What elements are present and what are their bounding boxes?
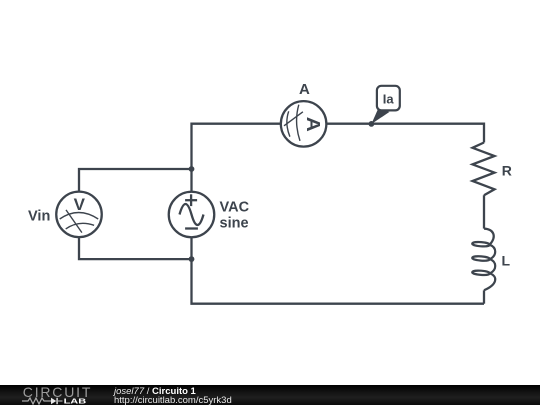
ammeter AM1 [281, 101, 327, 146]
current probe flag pointer [371, 109, 389, 124]
svg-text:sine: sine [220, 216, 249, 232]
logo resistor zigzag [22, 398, 51, 404]
svg-text:VAC: VAC [220, 199, 250, 215]
logo diode [51, 397, 56, 403]
wire left vertical above VAC [190, 169, 192, 192]
svg-text:Ia: Ia [383, 91, 395, 106]
current probe flag box [377, 86, 400, 111]
wire left vertical below VAC [192, 237, 485, 304]
wire top right segment [326, 124, 484, 143]
wire right vertical below L [483, 290, 485, 303]
wire top left segment [192, 124, 281, 169]
VAC source V1 [169, 192, 215, 238]
svg-text:A: A [299, 81, 310, 98]
svg-text:L: L [502, 253, 511, 269]
CircuitLab logo [23, 385, 92, 399]
svg-text:R: R [502, 162, 512, 178]
inductor L [472, 229, 495, 291]
svg-text:A: A [303, 117, 323, 132]
svg-text:Vin: Vin [28, 208, 50, 224]
footer bar [0, 385, 540, 405]
current probe node Ia [369, 121, 375, 127]
node junction top (VM1/V1) [189, 166, 195, 172]
wire right vertical between R and L [483, 195, 485, 228]
voltmeter VM1 [56, 192, 102, 238]
footer text [114, 386, 232, 405]
svg-text:V: V [74, 195, 86, 214]
wire voltmeter top branch [79, 169, 192, 192]
node junction bottom (VM1/V1) [189, 256, 195, 262]
svg-text:LAB: LAB [64, 397, 87, 405]
wire voltmeter bottom branch [79, 237, 192, 259]
resistor R [473, 143, 495, 196]
